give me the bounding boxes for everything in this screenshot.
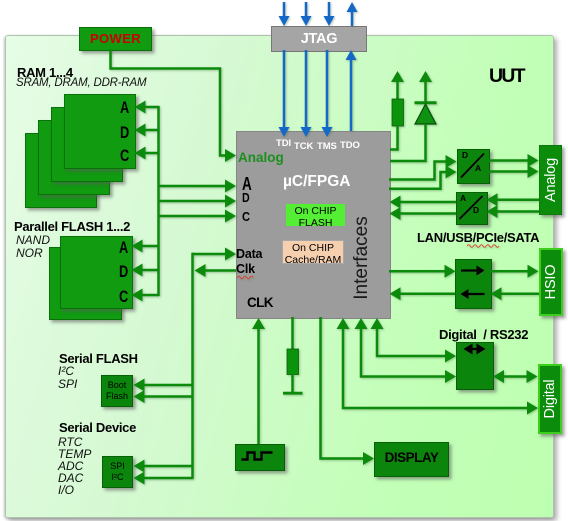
diode symbol — [415, 103, 437, 124]
label TEMP — [58, 447, 91, 461]
RS232 bidir arrow glyph — [464, 344, 486, 355]
label I/O — [58, 483, 74, 497]
label SRAM DRAM DDR-RAM — [16, 77, 146, 89]
wire diode top lead with arrow — [419, 71, 432, 102]
FLASH square 1 — [60, 236, 133, 309]
uC pin A — [242, 174, 252, 195]
A/D converter diagonal — [460, 196, 483, 219]
A/D letter A — [460, 193, 466, 203]
ground bar — [283, 392, 303, 395]
wire HSIO interface to HSIO port — [490, 265, 539, 278]
wire uC-RS232 channel 2 — [355, 318, 457, 383]
uC pin Analog — [238, 150, 284, 165]
uC pin Clk — [236, 262, 255, 276]
A/D letter D — [473, 205, 479, 215]
uC/FPGA box — [236, 131, 391, 319]
wire JTAG TDI (to uC pin) — [279, 50, 290, 137]
wire Analog to A/D in1 — [487, 193, 540, 206]
uC pin TMS — [317, 141, 337, 152]
label Interfaces — [361, 257, 363, 259]
A/D converter box — [456, 192, 488, 225]
FLASH square 2 — [49, 247, 122, 320]
wire uC to D/A in1 — [389, 155, 457, 180]
wire bus to uC C — [158, 210, 236, 223]
Boot Flash box — [101, 375, 133, 407]
wire bus to RAM C — [135, 147, 160, 160]
wire JTAG TMS (to uC pin) — [322, 50, 333, 137]
squiggle under PCIe — [467, 245, 499, 248]
On CHIP Cache/RAM box — [282, 240, 344, 264]
wire bus to uC A — [158, 180, 236, 193]
wire JTAG output arrow (top) — [347, 2, 358, 26]
SPI I2C device box — [102, 456, 133, 488]
label RTC — [58, 435, 82, 449]
label Digital / RS232 — [439, 327, 528, 342]
wire to Boot Flash pin2 — [134, 390, 194, 403]
wire JTAG input arrow 2 (top) — [301, 2, 312, 26]
clock generator waveform glyph — [242, 453, 273, 460]
wire HSIO interface to uC — [390, 287, 456, 300]
uC pin CLK — [247, 295, 273, 310]
wire A/D to uC out1 — [390, 196, 457, 209]
wire to SPI device pin1 — [134, 460, 194, 473]
wire uC to Digital direct — [337, 318, 539, 415]
HSIO interface box — [455, 259, 492, 309]
RAM square 1 — [64, 94, 136, 169]
label RAM 1...4 — [17, 65, 73, 80]
D/A letter A — [475, 163, 481, 173]
RAM pin C — [120, 146, 129, 166]
label Parallel FLASH 1...2 — [14, 219, 130, 234]
label I2C — [58, 364, 74, 378]
uC pin TDI — [276, 138, 291, 149]
uC pin TCK — [294, 141, 313, 152]
HSIO interface tx arrow glyph — [461, 266, 485, 276]
RAM square 2 — [51, 107, 123, 182]
wire Data into uC — [192, 248, 236, 261]
FLASH pin D — [119, 262, 128, 282]
wire resistor to uC — [390, 126, 398, 150]
label Serial FLASH — [59, 351, 138, 366]
wire A/D to uC out2 — [390, 207, 457, 220]
wire to SPI device pin2 — [134, 472, 194, 485]
wire uC-RS232 channel 1 — [371, 318, 457, 363]
wire uC to HSIO interface — [389, 265, 456, 278]
Analog port box — [539, 145, 562, 215]
label ADC — [58, 459, 83, 473]
wire JTAG input arrow 1 (top) — [279, 2, 290, 26]
D/A converter box — [457, 149, 490, 184]
resistor body (supply) — [392, 99, 404, 126]
D/A converter diagonal — [461, 154, 484, 178]
RAM square 3 — [38, 120, 110, 195]
wire uC to DISPLAY — [321, 317, 375, 465]
label NOR — [16, 246, 43, 260]
wire D/A to Analog out1 — [488, 154, 539, 167]
wire diode to uC — [390, 124, 426, 161]
wire crystal top lead — [291, 317, 294, 350]
uC pin D — [242, 191, 250, 205]
RAM pin D — [120, 123, 129, 143]
FLASH pin C — [119, 287, 128, 307]
uC pin C — [242, 209, 250, 224]
wire bus to FLASH A — [132, 240, 160, 253]
wire serial bus vertical — [191, 253, 194, 478]
uC pin Data — [236, 247, 262, 261]
RAM pin A — [120, 98, 129, 118]
wire uC to D/A in2 — [389, 166, 457, 189]
wire Clk out of uC — [195, 264, 237, 277]
JTAG box — [271, 26, 367, 52]
On CHIP FLASH box — [285, 203, 346, 227]
label NAND — [16, 233, 50, 247]
wire bus to uC D — [158, 195, 236, 208]
POWER box — [79, 27, 152, 51]
label LAN/USB/PCIe/SATA — [417, 230, 539, 245]
wire bus to FLASH D — [132, 264, 160, 277]
DISPLAY box — [374, 442, 449, 477]
wire clock gen to uC CLK — [252, 318, 265, 444]
label DAC — [58, 471, 83, 485]
wire to Boot Flash pin1 — [134, 379, 194, 392]
D/A letter D — [462, 150, 468, 160]
resistor-crystal body — [287, 349, 299, 375]
RAM square 4 — [25, 133, 97, 208]
wire bus to FLASH C — [132, 289, 160, 302]
HSIO port box — [539, 248, 563, 316]
wire JTAG TDO (from uC pin) — [346, 50, 357, 131]
label UUT — [489, 65, 524, 88]
FLASH pin A — [119, 238, 128, 258]
label SPI — [58, 377, 77, 391]
wire JTAG input arrow 3 (top) — [324, 2, 335, 26]
wire RS232 to Digital port (bidir) — [493, 370, 538, 383]
wire resistor top lead with arrow — [391, 71, 404, 100]
HSIO interface rx arrow glyph — [461, 289, 485, 299]
wire JTAG TCK (to uC pin) — [301, 50, 312, 137]
wire POWER to Analog input — [111, 49, 237, 162]
label Serial Device — [59, 420, 136, 435]
wire memory bus vertical — [157, 106, 160, 296]
wire bus to RAM D — [135, 124, 160, 137]
RS232 interface box — [456, 342, 494, 390]
clock generator box — [235, 444, 285, 471]
wire bus to RAM A — [135, 101, 160, 114]
wire Analog to A/D in2 — [487, 205, 540, 218]
squiggle under Clk — [237, 276, 253, 279]
label uC/FPGA — [283, 173, 351, 191]
uC pin TDO — [340, 140, 360, 151]
Digital port box — [538, 364, 562, 434]
wire HSIO port to interface — [491, 287, 540, 300]
wire crystal bottom lead — [291, 374, 294, 393]
wire D/A to Analog out2 — [488, 165, 539, 178]
